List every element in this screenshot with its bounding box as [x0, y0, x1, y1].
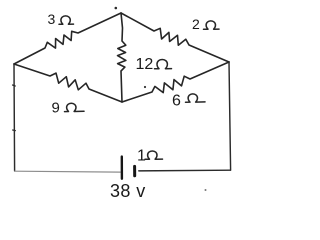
wire right side drop (right node down to bottom-right corner) — [229, 62, 231, 170]
label 2 ohm — [192, 16, 219, 32]
label 1 ohm (series resistance of battery) — [137, 148, 163, 165]
battery 38v positive plate (long) — [121, 157, 123, 179]
resistor 3-ohm branch (left node to top node) — [14, 13, 121, 64]
node near 6-ohm lead dot — [144, 86, 146, 88]
svg-text:1: 1 — [137, 148, 146, 165]
label 12 ohm — [136, 56, 172, 73]
stray speck bottom-right — [205, 189, 207, 191]
resistor 12-ohm branch (top node to bottom-center node, vertical) — [118, 13, 126, 102]
wire nub marks on left drop — [13, 85, 16, 131]
label 6 ohm — [172, 93, 205, 110]
svg-text:12: 12 — [136, 56, 154, 73]
svg-text:38 v: 38 v — [110, 181, 146, 201]
resistor 9-ohm branch (left node to bottom-center node) — [14, 64, 122, 102]
wire bottom-right segment (battery negative plate to bottom-right corner) — [139, 169, 231, 172]
svg-text:3: 3 — [48, 11, 56, 27]
label 9 ohm — [52, 100, 85, 117]
svg-text:2: 2 — [192, 16, 200, 32]
node top junction dot — [115, 7, 118, 10]
wire bottom-left segment (corner to battery positive plate) — [15, 170, 121, 173]
svg-text:6: 6 — [172, 93, 181, 110]
wire left side drop (left node down to bottom-left corner) — [13, 64, 16, 171]
battery 38v negative plate (short) — [133, 166, 136, 175]
svg-text:9: 9 — [52, 100, 60, 117]
resistor 6-ohm branch (bottom-center node to right node) — [122, 62, 229, 102]
resistor 2-ohm branch (top node to right node) — [121, 13, 229, 62]
label 3 ohm — [48, 11, 74, 27]
